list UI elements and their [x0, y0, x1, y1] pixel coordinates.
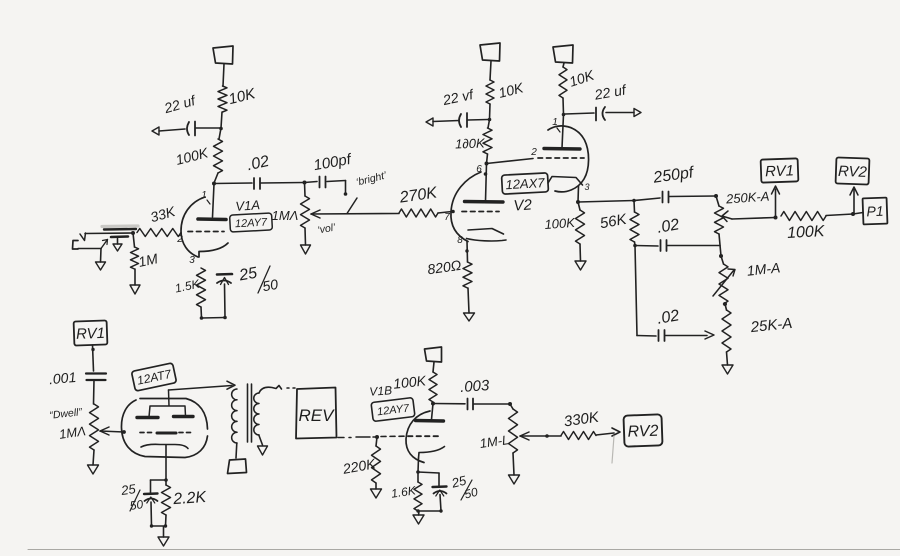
ground (R4): [130, 285, 140, 294]
ground (VR6): [509, 475, 520, 484]
label 100K V1B: [392, 372, 427, 391]
label 12AY7 boxed: [230, 213, 273, 232]
ground (R11): [575, 261, 586, 270]
resistor R3 33K: [137, 203, 181, 237]
svg-text:12AY7: 12AY7: [235, 217, 269, 231]
label 25/50: [237, 265, 279, 295]
node V3 cathode junction: [164, 478, 168, 482]
scan edge line: [28, 549, 900, 551]
label Dwell: [49, 406, 83, 421]
wire node F to pin2: [487, 159, 534, 164]
node B (plate V1A): [212, 182, 216, 186]
wire R9 to ground: [468, 288, 469, 313]
smudge over wire: [102, 226, 138, 230]
terminal TP1 (plate supply): [213, 46, 233, 64]
potentiometer VR3 1M-A: [719, 256, 781, 304]
wire node A to R2: [219, 128, 221, 139]
potentiometer VR1 1MA (vol): [272, 196, 310, 228]
wire node H to 56K: [578, 201, 634, 203]
wire jack to node C: [85, 232, 133, 235]
svg-text:7: 7: [444, 212, 450, 223]
wire VR4 to ground: [727, 352, 728, 365]
svg-text:.003: .003: [460, 377, 491, 396]
resistor R1 10K: [218, 85, 258, 112]
wire C13 down: [440, 495, 441, 512]
wire to C13: [418, 472, 439, 487]
svg-text:12AX7: 12AX7: [505, 175, 546, 192]
svg-text:250K-A: 250K-A: [725, 189, 770, 207]
wire node B to plate: [213, 184, 215, 217]
resistor R15 220K: [341, 437, 381, 483]
ground (R9): [464, 313, 475, 321]
node E: [488, 118, 492, 122]
wire RV2 arrow: [850, 187, 858, 213]
resistor R8 180K: [455, 128, 492, 154]
T1 secondary top lead: [259, 386, 295, 394]
tube V2b envelope: [548, 126, 589, 192]
tube V2a cathode: [467, 229, 507, 241]
capacitor C3 .02 coupling: [214, 153, 304, 189]
svg-text:RV2: RV2: [838, 163, 868, 181]
tube V1A plate: [198, 217, 226, 221]
wire node G to plate V2b: [562, 115, 564, 149]
ground (VR1): [301, 245, 311, 254]
pin 1 label V2b: [552, 117, 560, 132]
tube V3 grid: [140, 432, 193, 435]
svg-text:RV1: RV1: [76, 325, 105, 343]
resistor R2 100K: [174, 139, 223, 173]
terminal pad T1: [228, 459, 247, 474]
node Q (.003 out): [508, 402, 512, 406]
resistor R10 10K: [559, 67, 596, 98]
tube V1B plate: [416, 419, 444, 423]
svg-text:1MΛ: 1MΛ: [272, 208, 299, 223]
wire node N dashes to tube: [381, 435, 404, 437]
wire R11 to ground: [579, 244, 582, 261]
pin 2 label V2b: [530, 147, 537, 158]
node R (V1B cathode): [416, 470, 420, 474]
wire VR6 to ground: [513, 453, 514, 475]
tube V2a envelope: [451, 172, 481, 242]
pin 3 label V2b: [584, 182, 589, 192]
VR1 wiper arrow: [311, 210, 399, 218]
wire R10 to node G: [562, 98, 565, 115]
svg-text:.001: .001: [48, 369, 77, 387]
bright switch lever: [347, 198, 357, 214]
wire node D to VR1: [304, 183, 307, 197]
svg-text:RV1: RV1: [765, 162, 794, 180]
potentiometer VR6 1M-L: [479, 404, 518, 453]
potentiometer VR2 250K-A: [715, 189, 770, 234]
svg-text:25: 25: [119, 481, 137, 498]
VR2 wiper arrow: [722, 211, 732, 222]
svg-text:V1A: V1A: [235, 197, 261, 214]
wire V1B cathode down: [417, 458, 420, 472]
wire TP4 to R16: [433, 362, 434, 372]
capacitor C9 .02 lower: [637, 307, 714, 341]
jack switch arrow: [101, 240, 108, 249]
label bright: [355, 169, 389, 188]
node 56K top: [632, 199, 636, 203]
tube V2a plate: [465, 200, 504, 204]
wire to ground V3: [163, 527, 165, 538]
transformer T1 secondary: [254, 393, 259, 435]
tube V1A envelope: [181, 197, 205, 257]
resistor R18 1.6K: [390, 472, 422, 511]
resistor R14 2.2K: [162, 480, 209, 515]
wire R14 down: [165, 515, 168, 526]
node A (R1/C1/R2): [219, 127, 223, 131]
capacitor C11 25/50: [119, 481, 157, 513]
node grid V3: [122, 430, 126, 434]
ground (T1 sec): [258, 446, 268, 455]
VR5 wiper arrow: [100, 427, 124, 435]
wire R17 to RV2 arrow: [596, 428, 620, 436]
box RV2 (output): [836, 157, 870, 184]
svg-text:100K: 100K: [544, 215, 577, 232]
capacitor C4 100pf: [305, 151, 354, 196]
bottom wire R5-C2: [200, 316, 227, 320]
wire RV1 arrow: [772, 186, 780, 218]
wire R7 to node E: [489, 104, 492, 119]
tube V1B grid: [408, 435, 441, 437]
wire TP3 to R10: [563, 63, 564, 67]
node F (plate V2a): [485, 162, 489, 166]
ground (V3 cathode): [158, 537, 169, 546]
capacitor C8 .02: [635, 216, 720, 251]
wire node E to R8: [488, 120, 490, 129]
jack sleeve wire: [78, 248, 101, 250]
svg-text:1: 1: [201, 190, 207, 201]
tube V3 plate leads: [149, 390, 186, 417]
wire V3 plate to T1: [169, 381, 236, 390]
wire node L to VR2 wiper: [732, 218, 776, 220]
label 12AX7 boxed V2: [502, 173, 549, 194]
wire node C to R4: [133, 233, 135, 247]
pin 8 label: [457, 235, 463, 246]
svg-text:V1B: V1B: [369, 383, 393, 399]
wire cathode V3 down: [165, 445, 167, 480]
input jack J1: [73, 241, 79, 250]
capacitor C13 25/50: [433, 472, 480, 501]
resistor R7 10K: [486, 79, 525, 104]
chassis ground stem: [113, 239, 122, 252]
terminal TP2: [480, 43, 500, 61]
VR6 wiper arrow: [520, 432, 561, 440]
tube V2b grid: [538, 157, 584, 159]
svg-text:3: 3: [584, 182, 589, 192]
ground (jack): [96, 262, 106, 270]
ground (R15): [371, 489, 382, 498]
box RV1 (output): [761, 158, 799, 182]
node N (V1B grid): [375, 435, 379, 439]
wire RV1 to C10: [91, 345, 94, 371]
tube V3 cathode: [141, 444, 188, 448]
svg-text:50: 50: [129, 497, 144, 513]
capacitor C5 22vf with arrow: [426, 86, 488, 127]
box REV: [296, 388, 337, 439]
node 56K bottom: [633, 244, 637, 248]
svg-text:3: 3: [189, 255, 195, 266]
dash-dot T1 to REV: [0, 0, 1, 1]
T1 primary bottom lead: [235, 443, 238, 458]
tube V3 envelope: [121, 399, 207, 458]
ground (VR4): [722, 365, 733, 374]
wire R2 to node B: [214, 173, 218, 183]
tube V1A cathode: [199, 243, 228, 257]
ground (V1B cathode): [413, 515, 424, 524]
wire VR2 to node J: [719, 234, 721, 256]
node pin6: [484, 172, 488, 176]
wire TP2 to R7: [490, 61, 491, 80]
svg-text:1∂0K: 1∂0K: [455, 135, 486, 151]
resistor R13 100K: [781, 212, 826, 242]
wire TP1 to R1: [223, 64, 224, 86]
capacitor C6 22uf with arrow: [565, 81, 641, 120]
tube V3 plates: [137, 417, 193, 418]
tube V2b plate: [544, 147, 580, 151]
pin 6 label: [476, 164, 482, 175]
ground (VR5): [88, 465, 99, 474]
tube V2a grid: [462, 211, 499, 213]
wire node M to P1: [853, 213, 863, 215]
label 12AY7 boxed V1B: [371, 398, 415, 422]
wire pin8 to R9: [465, 241, 468, 262]
bottom wire R18-C13: [416, 509, 442, 512]
pin 1 label V1A: [201, 190, 210, 204]
box RV2 lower: [623, 414, 662, 446]
capacitor C1 22uf with arrow: [152, 92, 220, 136]
wire node F to plate V2a: [486, 164, 487, 202]
node K: [723, 302, 727, 306]
pin 3 label V1A: [189, 255, 195, 266]
svg-text:25: 25: [237, 265, 259, 285]
tube V1A grid: [188, 231, 224, 233]
resistor R17 330K: [561, 409, 601, 440]
node H (tone stack in): [576, 200, 580, 204]
pin 2 label V1A: [176, 234, 183, 245]
svg-text:8: 8: [457, 235, 463, 246]
potentiometer VR5 1MA dwell: [58, 404, 98, 450]
resistor R6 270K: [398, 184, 452, 217]
wire pin3 down: [577, 186, 580, 202]
bottom wire C11-R14: [150, 524, 167, 527]
svg-text:100K: 100K: [787, 223, 827, 242]
tube V1B cathode: [419, 447, 445, 459]
wire C11 down: [150, 502, 153, 526]
tube V2b cathode: [548, 177, 583, 186]
node G: [562, 113, 566, 117]
svg-text:2: 2: [530, 147, 537, 158]
svg-text:P1: P1: [866, 203, 884, 220]
node I (treble top): [714, 194, 718, 198]
transformer T1 core: [248, 384, 252, 442]
wire R1 to node: [221, 112, 222, 128]
svg-text:2.2K: 2.2K: [172, 489, 208, 508]
chassis ground bar: [111, 235, 128, 238]
wire R8 to node F: [487, 154, 488, 164]
wire VR5 to ground: [93, 450, 94, 465]
wire to ground V1B: [418, 512, 421, 516]
svg-text:V2: V2: [513, 196, 533, 214]
wire R15 to ground: [375, 483, 377, 489]
wire VR1 to ground: [304, 228, 307, 245]
dash-dot REV to node N: [338, 436, 377, 439]
VR3 arrow: [713, 269, 735, 296]
tube V1B envelope: [406, 411, 430, 463]
label vol: [317, 221, 338, 236]
resistor R9 820ohm: [426, 257, 472, 288]
wire C10 to VR5: [93, 380, 96, 404]
terminal TP3: [553, 45, 573, 63]
capacitor C12 .003: [433, 377, 510, 410]
svg-text:REV: REV: [299, 406, 336, 425]
node L: [774, 216, 778, 220]
capacitor C7 250pf: [634, 164, 716, 202]
resistor R11 100K: [544, 202, 584, 244]
box RV1 lower: [74, 320, 108, 345]
node pin7: [451, 210, 455, 214]
wire sleeve to ground: [100, 249, 103, 263]
terminal TP4: [425, 347, 442, 362]
label V1A: [235, 197, 261, 214]
wire slider bus down: [635, 246, 637, 336]
resistor R4 1M: [131, 247, 160, 270]
resistor R16 100K: [429, 372, 437, 402]
box P1: [863, 198, 888, 225]
capacitor C2 25/50: [217, 274, 232, 317]
wire to C11: [151, 480, 167, 494]
transformer T1 primary: [232, 389, 237, 443]
wire R5 to bottom node: [200, 307, 203, 318]
resistor R12 56K: [599, 201, 639, 243]
jack tip contact: [80, 233, 86, 241]
wire R4 to ground: [134, 269, 136, 285]
T1 secondary bottom lead: [259, 435, 263, 445]
wire R13 to node M: [826, 214, 853, 216]
pin 7 label: [444, 212, 450, 223]
wire 56K to C8: [634, 242, 637, 246]
label V2: [513, 196, 533, 214]
capacitor C10 .001: [48, 369, 106, 387]
node D (vol/bright): [303, 181, 307, 185]
node O (plate V1B): [431, 402, 435, 406]
resistor R5 1.5K: [174, 268, 206, 307]
pencil mark: [612, 436, 614, 463]
potentiometer VR4 25K-A: [722, 304, 793, 352]
node J: [719, 254, 723, 258]
svg-text:RV2: RV2: [627, 423, 659, 441]
label 12AT7 boxed: [131, 363, 176, 391]
node C (grid junction): [131, 231, 135, 235]
wire node O to plate: [432, 404, 434, 420]
node M: [851, 212, 855, 216]
label V1B: [369, 383, 393, 399]
